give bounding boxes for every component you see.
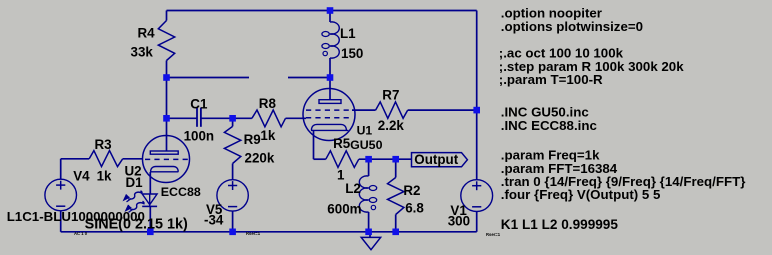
svg-text:V4: V4	[73, 169, 90, 184]
svg-text:ECC88: ECC88	[161, 185, 201, 199]
svg-text:1: 1	[337, 168, 345, 183]
svg-text:300: 300	[448, 213, 470, 228]
svg-text:SINE(0 2.15 1k): SINE(0 2.15 1k)	[85, 217, 188, 233]
svg-text:C1: C1	[190, 96, 208, 111]
svg-text:2.2k: 2.2k	[378, 118, 405, 133]
svg-text:AC 1 0: AC 1 0	[74, 231, 88, 236]
svg-text:R8: R8	[259, 96, 277, 111]
svg-text:.four {Freq} V(Output) 5 5: .four {Freq} V(Output) 5 5	[501, 187, 661, 202]
svg-text:33k: 33k	[131, 44, 154, 59]
svg-text:D1: D1	[126, 175, 144, 190]
svg-text:Rser=1: Rser=1	[486, 232, 501, 237]
svg-text:-34: -34	[204, 213, 224, 228]
svg-text:6.8: 6.8	[405, 200, 424, 215]
svg-text:K1 L1 L2 0.999995: K1 L1 L2 0.999995	[501, 217, 619, 232]
svg-text:1k: 1k	[260, 128, 275, 143]
svg-text:150: 150	[341, 46, 363, 61]
svg-text:220k: 220k	[245, 151, 275, 166]
svg-text:R9: R9	[244, 132, 261, 147]
svg-text:.INC ECC88.inc: .INC ECC88.inc	[501, 118, 597, 133]
svg-text:600m: 600m	[327, 202, 361, 217]
svg-text:;.param T=100-R: ;.param T=100-R	[499, 72, 603, 87]
svg-text:100n: 100n	[184, 128, 215, 143]
svg-text:.options plotwinsize=0: .options plotwinsize=0	[501, 19, 643, 34]
svg-text:L2: L2	[345, 181, 361, 196]
svg-text:R2: R2	[403, 183, 420, 198]
svg-text:R3: R3	[95, 137, 112, 152]
svg-text:GU50: GU50	[350, 138, 382, 152]
svg-text:Output: Output	[414, 152, 458, 167]
svg-text:R5: R5	[333, 136, 351, 151]
svg-text:Rser=1: Rser=1	[246, 231, 261, 236]
svg-text:R7: R7	[382, 87, 399, 102]
svg-text:U1: U1	[357, 124, 373, 138]
svg-text:R4: R4	[138, 26, 156, 41]
svg-text:1k: 1k	[97, 169, 112, 184]
svg-text:L1: L1	[340, 26, 356, 41]
